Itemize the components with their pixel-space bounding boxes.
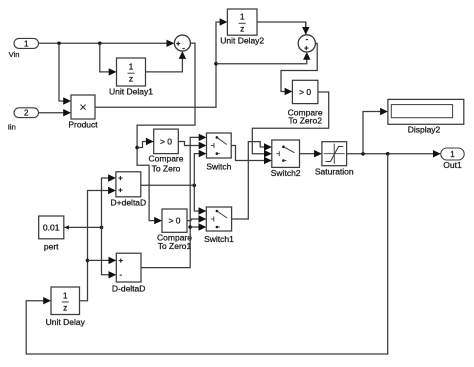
svg-text:To Zero: To Zero [152,164,181,174]
svg-text:+: + [304,44,309,53]
svg-text:+: + [118,186,123,195]
svg-text:Switch2: Switch2 [271,168,301,178]
svg-text:Vin: Vin [9,50,20,59]
svg-text:Product: Product [68,120,98,130]
svg-text:1: 1 [240,12,245,22]
svg-text:Unit Delay1: Unit Delay1 [109,87,153,97]
svg-text:Iin: Iin [8,123,16,132]
svg-text:1: 1 [129,62,134,72]
svg-text:D+deltaD: D+deltaD [111,198,147,208]
svg-text:×: × [79,100,87,115]
svg-text:z: z [63,302,67,312]
svg-text:Compare: Compare [149,154,184,164]
svg-text:Out1: Out1 [443,160,462,170]
svg-text:+: + [118,174,123,183]
svg-text:Unit Delay: Unit Delay [46,317,86,327]
svg-text:2: 2 [24,109,29,118]
svg-text:1: 1 [450,150,455,159]
svg-text:1: 1 [24,39,29,48]
svg-text:> 0: > 0 [299,87,311,97]
svg-text:To Zero1: To Zero1 [158,241,192,251]
svg-text:Unit Delay2: Unit Delay2 [220,36,264,46]
svg-text:z: z [129,74,133,84]
svg-text:Switch: Switch [206,162,231,172]
svg-text:Saturation: Saturation [315,167,354,177]
svg-text:pert: pert [44,242,59,252]
svg-text:> 0: > 0 [168,216,180,226]
svg-text:Switch1: Switch1 [204,234,234,244]
svg-text:Display2: Display2 [408,125,441,135]
svg-text:+: + [119,256,124,265]
svg-text:> 0: > 0 [160,136,172,146]
svg-text:0.01: 0.01 [43,223,60,233]
svg-text:+: + [176,39,181,48]
svg-text:1: 1 [63,290,68,300]
svg-text:To Zero2: To Zero2 [288,116,322,126]
svg-text:D-deltaD: D-deltaD [112,284,146,294]
svg-text:z: z [240,24,244,34]
